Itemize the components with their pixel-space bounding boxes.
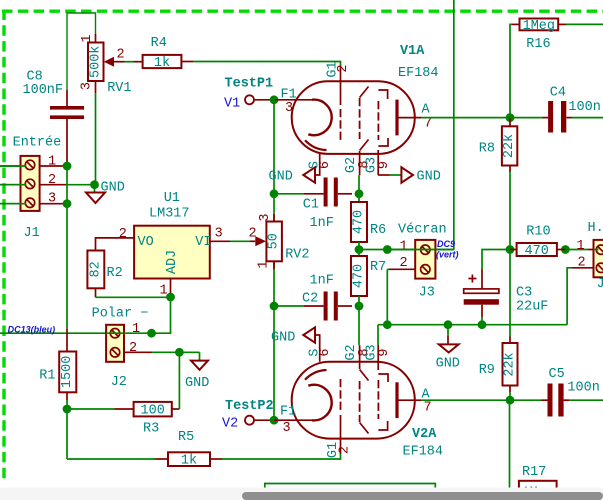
capacitor C5 xyxy=(510,399,541,401)
svg-text:V1A: V1A xyxy=(400,44,425,59)
V1A pin G3 xyxy=(377,150,379,175)
svg-text:C3: C3 xyxy=(516,286,532,301)
wire net DC9 row xyxy=(359,249,454,251)
junction C3 gnd xyxy=(478,320,487,329)
J1 pin 3 xyxy=(40,203,63,205)
svg-text:100n: 100n xyxy=(568,100,600,115)
V2A cathode pin F1 xyxy=(274,419,313,421)
V2A grid G1 xyxy=(340,415,342,454)
wire R7 to V2A G2 xyxy=(358,296,360,345)
junction J2 pin2 xyxy=(175,348,184,357)
testpoint TestP2 xyxy=(245,416,254,425)
svg-text:7: 7 xyxy=(424,117,432,132)
svg-text:R9: R9 xyxy=(479,363,495,378)
svg-text:LM317: LM317 xyxy=(149,207,190,222)
svg-text:Entrée: Entrée xyxy=(13,136,62,151)
svg-text:RV1: RV1 xyxy=(107,81,131,96)
wire R3 to J2 pin2 xyxy=(178,352,180,409)
capacitor C1 xyxy=(304,193,324,195)
wire J1 pin1 left xyxy=(0,165,21,167)
svg-text:1: 1 xyxy=(48,154,56,169)
svg-text:6: 6 xyxy=(318,348,333,356)
wire J1 pin1-pin3 xyxy=(66,166,68,204)
junction C2 right xyxy=(355,302,364,311)
U1 ADJ pin xyxy=(170,279,172,298)
svg-text:Vécran: Vécran xyxy=(398,223,447,238)
wire R8-R9 xyxy=(509,250,511,337)
V1A anode plate xyxy=(395,100,398,136)
svg-text:R4: R4 xyxy=(151,36,167,51)
wire C3 bottom xyxy=(481,317,483,325)
svg-text:7: 7 xyxy=(424,401,432,416)
svg-text:R16: R16 xyxy=(526,37,550,52)
resistor R10 xyxy=(510,249,517,251)
partial component outline bottom xyxy=(265,484,436,494)
wire V2A anode xyxy=(421,399,510,401)
capacitor C2 xyxy=(304,305,324,307)
U1 VI pin xyxy=(210,240,230,242)
svg-text:3: 3 xyxy=(80,82,95,90)
connector J3 xyxy=(415,240,435,279)
svg-text:DC9: DC9 xyxy=(437,239,455,249)
svg-text:2: 2 xyxy=(336,64,351,72)
V1A grid G1 xyxy=(340,66,342,105)
ground GND at J1 pin2 xyxy=(90,180,99,189)
scrollbar track xyxy=(0,488,603,500)
svg-text:R5: R5 xyxy=(178,430,194,445)
wire C5 right xyxy=(569,399,603,401)
svg-text:VO: VO xyxy=(138,235,154,250)
svg-text:470: 470 xyxy=(352,210,367,234)
resistor R3 xyxy=(115,408,134,410)
svg-text:C4: C4 xyxy=(550,86,566,101)
junction J1 pin3 xyxy=(63,199,72,208)
wire V1A G2 down xyxy=(358,175,360,202)
resistor R5 xyxy=(155,458,168,460)
svg-text:Polar −: Polar − xyxy=(92,307,149,322)
svg-text:1: 1 xyxy=(132,322,140,337)
svg-text:1: 1 xyxy=(80,34,95,42)
junction bus J3 xyxy=(383,320,392,329)
svg-text:GND: GND xyxy=(269,170,293,185)
V2A grid G3 xyxy=(377,380,379,419)
svg-text:ADJ: ADJ xyxy=(165,250,180,274)
svg-text:R7: R7 xyxy=(370,260,386,275)
svg-text:C2: C2 xyxy=(302,292,318,307)
V1A grid G3 xyxy=(377,101,379,140)
svg-text:470: 470 xyxy=(352,264,367,288)
svg-text:2: 2 xyxy=(48,173,56,188)
svg-text:2: 2 xyxy=(129,341,137,356)
svg-text:DC13(bleu): DC13(bleu) xyxy=(8,325,56,335)
wire R16 right xyxy=(566,23,603,25)
svg-text:J1: J1 xyxy=(24,226,40,241)
resistor R16 xyxy=(512,23,520,25)
svg-text:9: 9 xyxy=(377,348,392,356)
wire top elbow C8/RV1 xyxy=(67,13,96,90)
junction R6/R7 xyxy=(355,245,364,254)
resistor R8 xyxy=(509,118,511,127)
testpoint TestP1 xyxy=(245,95,254,104)
svg-text:A: A xyxy=(422,103,431,118)
svg-text:V2: V2 xyxy=(222,417,238,432)
tube V1A envelope xyxy=(292,81,415,154)
svg-text:2: 2 xyxy=(249,227,257,242)
junction C1 right xyxy=(355,189,364,198)
V1A pin G2 xyxy=(359,151,361,175)
junction J3 pin1 node xyxy=(383,245,392,254)
svg-text:F1: F1 xyxy=(280,405,296,420)
svg-text:1Meg: 1Meg xyxy=(523,19,555,34)
svg-text:J3: J3 xyxy=(419,286,435,301)
svg-text:C1: C1 xyxy=(303,198,319,213)
V2A pin G3 xyxy=(377,345,379,370)
svg-text:GND: GND xyxy=(271,331,295,346)
V2A pin G2 xyxy=(359,345,361,369)
wire bus to V2A G3 xyxy=(377,325,379,345)
svg-text:3: 3 xyxy=(215,227,223,242)
wire to R17 xyxy=(510,400,514,489)
regulator U1 body xyxy=(134,226,210,279)
svg-text:22uF: 22uF xyxy=(516,300,548,315)
wire ADJ to J2 pin1 xyxy=(152,297,171,333)
svg-text:1: 1 xyxy=(577,239,585,254)
wire V1A anode xyxy=(421,117,510,119)
svg-text:C5: C5 xyxy=(549,367,565,382)
junction V2A anode node xyxy=(506,396,515,405)
wire C4 right xyxy=(572,117,603,119)
J2 pin 2 xyxy=(124,351,152,353)
tube V2A envelope xyxy=(292,362,415,439)
svg-text:1k: 1k xyxy=(154,56,170,71)
V1A pin A xyxy=(397,117,421,119)
svg-text:50: 50 xyxy=(267,233,282,249)
svg-text:GND: GND xyxy=(417,170,441,185)
wire C2 left xyxy=(274,305,304,307)
svg-text:22k: 22k xyxy=(502,134,517,158)
wire HT pin1 over box xyxy=(594,249,599,251)
wire R9 bottom xyxy=(509,392,511,400)
junction R1/R3 xyxy=(63,405,72,414)
svg-text:9: 9 xyxy=(377,161,392,169)
svg-text:R3: R3 xyxy=(143,422,159,437)
svg-text:2: 2 xyxy=(117,48,125,63)
V1A cathode pin F1 xyxy=(274,99,313,101)
svg-text:100n: 100n xyxy=(567,381,599,396)
svg-text:1nF: 1nF xyxy=(310,216,334,231)
V2A pin A xyxy=(397,399,421,401)
junction anode node xyxy=(506,113,515,122)
capacitor C3 xyxy=(481,269,483,289)
junction bus gndsym xyxy=(444,320,453,329)
svg-text:2: 2 xyxy=(338,446,353,454)
wire R16 left xyxy=(510,24,512,117)
junction J2 pin1 xyxy=(147,329,156,338)
V1A shield arc xyxy=(305,140,327,150)
wire RV1 pin3 to GND xyxy=(95,93,97,185)
capacitor C3 polarity + xyxy=(468,275,476,283)
U1 VO pin xyxy=(96,238,135,251)
selection marquee left edge xyxy=(2,10,5,482)
svg-text:100: 100 xyxy=(141,404,165,419)
svg-text:1nF: 1nF xyxy=(310,274,334,289)
svg-text:H.T: H.T xyxy=(588,221,603,236)
svg-text:470: 470 xyxy=(525,244,549,259)
svg-text:GND: GND xyxy=(101,181,125,196)
svg-text:VI: VI xyxy=(195,235,211,250)
svg-text:TestP2: TestP2 xyxy=(225,399,274,414)
svg-text:U1: U1 xyxy=(164,191,180,206)
V2A grid G2 xyxy=(359,381,361,422)
junction C2 left xyxy=(270,302,279,311)
J1 pin 1 xyxy=(40,165,63,167)
capacitor C4 xyxy=(510,117,543,119)
V1A pin S xyxy=(315,153,320,175)
wire J1 pin2 left xyxy=(0,184,21,186)
svg-text:R2: R2 xyxy=(107,266,123,281)
V1A cathode arc xyxy=(308,100,331,136)
HT pin 2 wire xyxy=(572,267,594,269)
wire R2 bottom to ADJ node xyxy=(95,288,97,297)
svg-text:3: 3 xyxy=(258,213,273,221)
wire TestP1 to TestP2 column xyxy=(273,100,275,420)
resistor R4 xyxy=(143,55,182,68)
wire R3 left xyxy=(67,408,115,410)
wire bottom to R5 xyxy=(67,458,155,460)
V2A anode plate xyxy=(395,382,398,418)
svg-text:R17: R17 xyxy=(522,465,546,480)
svg-text:R8: R8 xyxy=(479,142,495,157)
RV2 wiper arrow xyxy=(250,240,255,242)
wire C1 left xyxy=(274,193,304,195)
svg-text:(vert): (vert) xyxy=(436,249,459,259)
ground arrow left V1A S xyxy=(303,167,315,182)
resistor R7 xyxy=(351,256,367,296)
svg-text:R6: R6 xyxy=(370,223,386,238)
junction R8/R10/C3 xyxy=(506,245,515,254)
wire J1 pin3 to R1 xyxy=(66,204,68,329)
ground arrow left V2A S xyxy=(303,327,315,342)
resistor R9 xyxy=(509,337,511,344)
junction R10/HT xyxy=(561,245,570,254)
capacitor C8 xyxy=(66,90,68,106)
wire ground bus xyxy=(378,324,567,326)
svg-text:1: 1 xyxy=(257,260,272,268)
wire R5 to V2A G1 xyxy=(222,454,341,459)
wire net DC9 over J3 xyxy=(387,249,454,251)
wire R4 to V1A G1 xyxy=(193,62,341,67)
junction C1 left xyxy=(270,189,279,198)
svg-text:6: 6 xyxy=(318,161,333,169)
V1A grid G2 xyxy=(359,98,361,139)
svg-text:82: 82 xyxy=(88,261,103,277)
svg-text:1: 1 xyxy=(400,240,408,255)
svg-text:1k: 1k xyxy=(181,454,197,469)
svg-text:TestP1: TestP1 xyxy=(225,77,274,92)
svg-text:1500: 1500 xyxy=(60,356,75,388)
svg-text:22k: 22k xyxy=(503,352,518,376)
J2 pin 1 xyxy=(106,332,151,334)
connector J4 H.T xyxy=(594,240,603,277)
svg-text:RV2: RV2 xyxy=(285,248,309,263)
potentiometer RV2 xyxy=(273,214,275,222)
wire R6-R7 xyxy=(358,242,360,256)
ground GND at bus xyxy=(447,325,449,336)
selection marquee top edge xyxy=(2,9,603,12)
resistor R17 xyxy=(513,488,519,490)
scrollbar thumb xyxy=(242,492,603,500)
wire R1 bottom xyxy=(66,400,68,459)
ground GND at J2 pin2 xyxy=(179,351,199,353)
ground arrow right V1A G3 xyxy=(378,174,390,176)
J3 pin 2 xyxy=(389,268,415,270)
wire net DC13 xyxy=(0,332,106,334)
junction ADJ node xyxy=(166,293,175,302)
svg-text:2: 2 xyxy=(119,227,127,242)
svg-text:3: 3 xyxy=(48,191,56,206)
wire VI to RV2 wiper xyxy=(230,240,250,242)
svg-text:J: J xyxy=(597,277,603,292)
wire R8 to R10 node xyxy=(509,172,511,250)
junction TestP2 xyxy=(270,416,279,425)
svg-text:500k: 500k xyxy=(88,46,103,78)
resistor R2 xyxy=(87,251,104,289)
svg-text:J2: J2 xyxy=(111,375,127,390)
V2A pin S xyxy=(315,335,320,362)
junction TestP1 xyxy=(270,95,279,104)
wire C3 top xyxy=(482,250,510,270)
svg-text:R1: R1 xyxy=(39,369,55,384)
potentiometer RV1 xyxy=(95,34,97,43)
svg-text:V1: V1 xyxy=(224,97,240,112)
connector J1 xyxy=(21,156,40,211)
wire J1 pin3 left xyxy=(0,203,21,205)
svg-text:V2A: V2A xyxy=(412,427,437,442)
svg-text:GND: GND xyxy=(436,357,460,372)
V2A shield arc xyxy=(305,370,327,380)
svg-text:3: 3 xyxy=(283,421,291,436)
J1 pin 2 xyxy=(40,184,67,186)
junction J1 pin1 xyxy=(63,162,72,171)
svg-text:GND: GND xyxy=(185,376,209,391)
connector J2 xyxy=(106,325,124,362)
svg-text:100nF: 100nF xyxy=(23,83,64,98)
svg-text:R10: R10 xyxy=(526,225,550,240)
svg-text:EF184: EF184 xyxy=(403,445,444,460)
resistor R6 xyxy=(351,202,367,242)
svg-text:EF184: EF184 xyxy=(398,66,439,81)
resistor R1 xyxy=(66,329,68,352)
wire R10 to HT pin1 xyxy=(565,249,588,251)
V2A cathode arc xyxy=(308,385,331,421)
wire DC9 vertical xyxy=(453,0,455,250)
